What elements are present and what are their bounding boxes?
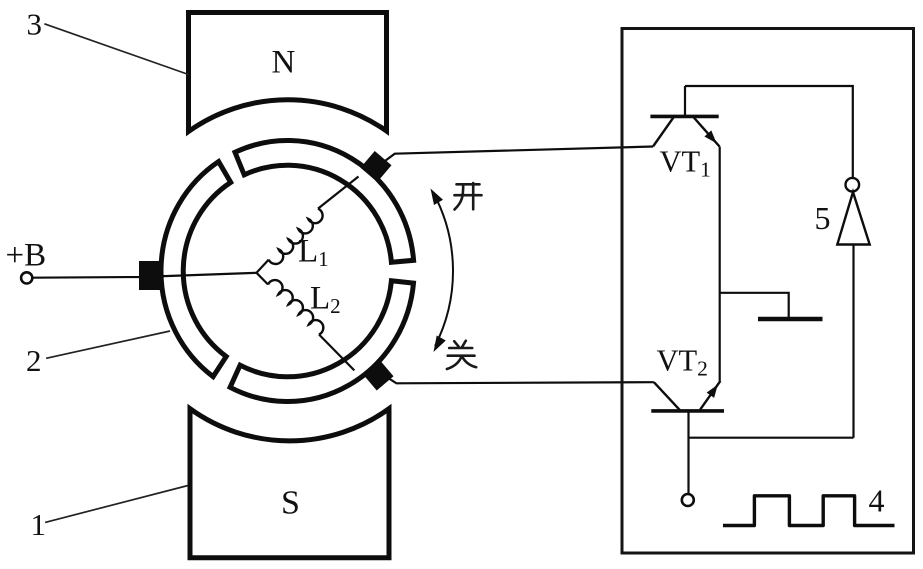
wire to ground xyxy=(720,293,789,317)
wire +B to hub xyxy=(33,273,257,278)
svg-text:+B: +B xyxy=(6,238,47,274)
inductor L1 xyxy=(257,260,269,273)
svg-text:1: 1 xyxy=(31,507,47,542)
label 2 leader xyxy=(46,331,170,358)
rotation arrowhead bottom (guan) xyxy=(434,336,446,353)
svg-text:3: 3 xyxy=(27,7,43,42)
inverter U5 circle xyxy=(846,178,860,192)
wire VT1 base rail to inverter output xyxy=(685,86,853,178)
label 1 leader xyxy=(45,486,188,523)
ground xyxy=(758,317,823,321)
transistor VT2 xyxy=(651,381,724,493)
label kai (open) xyxy=(455,183,482,210)
inductor L2 xyxy=(257,273,269,285)
wire bottom brush to VT2 collector xyxy=(388,378,654,384)
rotor ring segment top xyxy=(235,141,414,263)
brush contact +B (left) xyxy=(139,261,160,290)
inverter U5 triangle xyxy=(837,192,869,244)
svg-text:4: 4 xyxy=(869,483,885,519)
magnet S pole xyxy=(190,409,389,558)
+B terminal circle xyxy=(21,272,32,283)
svg-text:5: 5 xyxy=(815,200,831,236)
input terminal circle xyxy=(682,494,694,506)
wire top brush to VT1 collector xyxy=(385,147,653,161)
magnet N pole xyxy=(189,13,387,132)
label guan (close) xyxy=(447,341,476,369)
wire VT2 base to inverter input xyxy=(689,437,854,439)
rotation arrow arc xyxy=(433,192,453,346)
svg-text:S: S xyxy=(281,485,300,522)
signal waveform 4 xyxy=(723,496,895,526)
rotor ring segment bottom xyxy=(230,281,413,402)
control box xyxy=(622,29,914,554)
svg-text:N: N xyxy=(272,45,296,81)
brush contact top-right xyxy=(360,151,391,182)
wire emitter bus VT1-VT2 xyxy=(719,147,721,382)
transistor VT1 xyxy=(650,86,719,147)
brush contact bottom-right xyxy=(362,359,393,390)
label 3 leader xyxy=(44,24,188,75)
wire inverter input xyxy=(852,245,854,438)
rotation arrowhead top (kai) xyxy=(431,189,444,206)
rotor ring segment left xyxy=(161,162,231,377)
svg-text:2: 2 xyxy=(26,343,42,378)
